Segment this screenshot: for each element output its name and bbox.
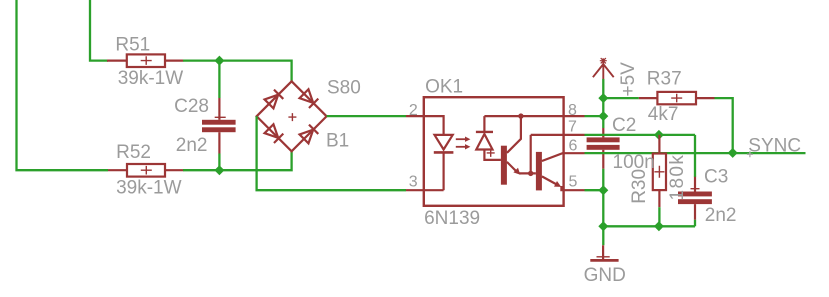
svg-text:6N139: 6N139 xyxy=(424,208,480,229)
pin 8 rail xyxy=(484,115,584,117)
transistor Q2 xyxy=(536,152,585,191)
node junction R30 top xyxy=(654,130,664,140)
diode B1 top-left xyxy=(264,90,283,109)
optocoupler OK1 box xyxy=(424,97,564,206)
SYNC label origin cross xyxy=(747,151,753,157)
pin 3 lead xyxy=(406,189,444,191)
svg-text:2: 2 xyxy=(409,102,418,119)
resistor R51 xyxy=(107,54,183,67)
node collector dot xyxy=(518,113,523,118)
capacitor C2 xyxy=(587,128,620,169)
wire xyxy=(603,225,695,227)
light arrow 2 xyxy=(456,144,471,149)
node junction +5V/R37 xyxy=(598,93,608,103)
light arrow 1 xyxy=(456,137,471,142)
wire xyxy=(602,169,604,246)
node junction GND left xyxy=(598,221,608,231)
transistor Q1 xyxy=(501,116,536,185)
svg-text:GND: GND xyxy=(584,265,626,286)
diode B1 bottom-left xyxy=(264,124,283,143)
node junction R52/C28 xyxy=(214,165,224,175)
bridge origin cross xyxy=(288,113,296,121)
svg-text:R52: R52 xyxy=(116,142,151,163)
svg-text:3: 3 xyxy=(409,174,418,191)
wire xyxy=(602,79,604,128)
wire xyxy=(585,189,604,191)
pin 7 lead xyxy=(531,135,585,174)
svg-text:+5V: +5V xyxy=(618,62,639,97)
wire xyxy=(327,115,406,117)
wire xyxy=(17,0,109,170)
node Q1 emitter / Q2 base dot xyxy=(528,171,533,176)
svg-text:B1: B1 xyxy=(326,130,349,151)
svg-text:OK1: OK1 xyxy=(425,77,463,98)
photodiode OK1 xyxy=(476,116,501,160)
svg-text:2n2: 2n2 xyxy=(176,135,208,156)
svg-text:6: 6 xyxy=(569,138,578,155)
svg-text:7: 7 xyxy=(568,118,577,135)
wire xyxy=(218,154,220,171)
node junction pin8 xyxy=(598,111,608,121)
svg-text:SYNC: SYNC xyxy=(748,135,801,156)
svg-text:2n2: 2n2 xyxy=(705,205,737,226)
svg-text:5: 5 xyxy=(569,173,578,190)
wire xyxy=(715,98,733,153)
capacitor C28 xyxy=(202,98,236,154)
svg-text:39k-1W: 39k-1W xyxy=(118,68,184,89)
svg-text:39k-1W: 39k-1W xyxy=(116,177,182,198)
wire xyxy=(603,97,639,99)
resistor R37 xyxy=(639,92,715,104)
wire xyxy=(585,115,604,117)
bridge rectifier B1 diamond xyxy=(257,81,327,151)
wire xyxy=(183,151,292,170)
power +5V symbol xyxy=(593,58,614,79)
wire SYNC net xyxy=(585,152,806,154)
svg-text:R51: R51 xyxy=(115,35,150,56)
wire xyxy=(218,61,220,98)
resistor R52 xyxy=(108,164,183,177)
node junction R51/C28 xyxy=(214,56,224,66)
diode B1 bottom-right xyxy=(299,125,318,144)
svg-text:R30: R30 xyxy=(629,169,650,204)
wire xyxy=(257,116,406,190)
capacitor C3 xyxy=(678,177,712,220)
svg-text:C2: C2 xyxy=(612,115,636,136)
LED OK1 input xyxy=(434,135,454,190)
svg-text:8: 8 xyxy=(568,102,577,119)
resistor R30 xyxy=(653,135,666,207)
wire xyxy=(585,135,696,177)
ground GND symbol xyxy=(590,245,618,260)
svg-text:S80: S80 xyxy=(327,77,361,98)
photodiode origin cross xyxy=(487,149,495,157)
wire xyxy=(183,61,292,82)
wire xyxy=(658,207,660,226)
node junction SYNC/R37 xyxy=(728,148,738,158)
diode B1 top-right xyxy=(299,89,318,108)
svg-text:C3: C3 xyxy=(704,167,728,188)
svg-text:R37: R37 xyxy=(647,68,682,89)
pin 2 lead xyxy=(406,116,444,135)
node junction pin5 xyxy=(598,185,608,195)
svg-text:180k: 180k xyxy=(667,154,688,201)
node junction R30 bottom xyxy=(654,221,664,231)
svg-text:4k7: 4k7 xyxy=(648,104,679,125)
svg-text:C28: C28 xyxy=(174,96,209,117)
wire xyxy=(90,0,108,61)
wire xyxy=(694,220,696,227)
